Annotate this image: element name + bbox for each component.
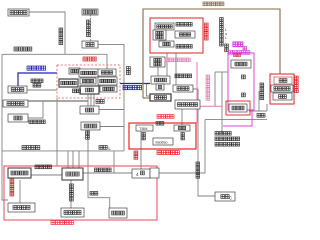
label: shijiu-meiren <box>22 146 26 150</box>
box: wuyong-daopao <box>59 79 78 87</box>
label: nv char <box>242 75 246 79</box>
wire: brown big loop kaifangxing <box>143 9 280 98</box>
svg-text::: : <box>225 40 226 44</box>
box: small tang <box>156 84 164 90</box>
label: fuxi vertical <box>127 67 131 71</box>
box: chenyiyan <box>151 76 170 84</box>
label: cunv <box>257 114 261 118</box>
box: sheiwen-gairen <box>150 57 165 67</box>
label: zubao-errenzu magenta <box>229 51 233 55</box>
wire: daidai to vertical <box>99 109 124 111</box>
wire: sandama to right <box>249 110 267 112</box>
label: red vertical right of top box <box>204 23 208 27</box>
box: woaiwoma <box>8 203 35 212</box>
wire: brown to lierbo <box>143 97 150 99</box>
label: pink tingqi vertical <box>206 75 210 79</box>
svg-text:BaoBao: BaoBao <box>156 141 168 145</box>
label: xingdi-jinjiandui red bottom <box>51 221 55 225</box>
label: kaifangxing-jieju brown top <box>203 2 207 6</box>
label: guanli-zhiai vertical <box>260 83 264 87</box>
label: tongshi left vertical <box>142 133 145 136</box>
wire: blue tiqin right <box>120 83 150 85</box>
wire: chenwang-daidai 1 <box>87 94 89 106</box>
wire: up into right container <box>266 104 268 111</box>
label: pink naxiaqu <box>157 115 161 119</box>
box: TBM <box>136 125 153 131</box>
box: ruiwangzi <box>81 122 100 130</box>
container: red dashed meihuadao box <box>57 65 120 98</box>
wire: ruixuetang to dashed box <box>27 89 57 91</box>
label: textblock line3 <box>215 143 219 147</box>
box: zuanshi <box>159 41 174 47</box>
label: small red under magenta name <box>234 54 237 57</box>
wire: box A to shendiao line <box>29 12 65 54</box>
label: guanxi-louti vertical red <box>10 179 14 183</box>
box: sandama <box>229 104 247 112</box>
box: small attach box <box>150 168 159 178</box>
svg-text:4: 4 <box>136 172 139 177</box>
box: lierbo <box>150 94 171 101</box>
box: danxiangsi 1 <box>98 69 116 76</box>
label: qiye-hezuo <box>175 74 179 78</box>
wire: down to qiujiaoyi 3 <box>78 151 80 168</box>
box: chenwang <box>80 86 99 94</box>
label: tiqin-zhibo blue left <box>27 66 31 70</box>
box: dinghe <box>69 68 80 74</box>
box: mudajie <box>231 60 251 68</box>
box: dierti <box>173 85 193 92</box>
box: zhangjiaxiao <box>175 31 195 38</box>
container: top red box <box>150 18 203 53</box>
wire: shendiao horizontal line <box>2 53 107 55</box>
container: bottom red box <box>4 166 157 220</box>
box: danxiangsi 3 <box>100 86 117 92</box>
wire: down to tianmingC <box>198 109 215 196</box>
label: vertical column text 1 <box>220 18 224 22</box>
label: tilian vertical <box>87 20 91 24</box>
label: qingmei-furen <box>176 45 180 49</box>
label: dao char <box>242 93 246 97</box>
container: magenta erren-zu box <box>228 53 254 110</box>
label: chuqu-wuwu <box>176 23 180 27</box>
wire: qiujiaoyi to 4hao <box>83 172 132 174</box>
box: yizi-yu-jiaohuang <box>175 100 200 109</box>
label: shihua-jiaohuan vertical <box>59 28 63 32</box>
wire: ruiwangzi to vertical <box>100 126 124 128</box>
wire: left edge down to wo-ai-wo-ma <box>2 54 8 200</box>
wire: vertical 222 to textblock <box>221 72 223 133</box>
label: textblock line1 <box>215 132 219 136</box>
box: daidai <box>80 106 99 114</box>
wire: small link to li-er-bo <box>146 84 150 96</box>
label: tongshi right vertical <box>181 133 184 136</box>
wire: cunv horizontal <box>205 119 267 121</box>
wire: qiujiaoyi down to chaoshan <box>70 180 72 208</box>
label: fouren near bottom wire <box>90 192 94 196</box>
container: red around sandama <box>226 101 250 115</box>
box: BaoBao <box>153 138 173 145</box>
wire: cunv down to small box <box>159 120 205 173</box>
box: diangun <box>174 125 190 131</box>
wire: chenwang-daidai 2 <box>90 94 92 106</box>
label: pink fuzhu line1 <box>165 58 169 62</box>
label: meijingtao red <box>157 151 161 155</box>
box: 4hao <box>132 169 150 178</box>
wire: chongtian down to woaiwoma <box>19 180 21 203</box>
box: dache <box>271 85 293 92</box>
wire: red box to dierti <box>175 53 177 85</box>
label: relian vertical <box>134 151 138 155</box>
label: chouren vertical <box>86 131 90 135</box>
wire: red box to chenyiyan <box>166 53 168 76</box>
label: dengji-zhiai <box>95 168 99 172</box>
wire: to erren-zu box <box>215 71 228 73</box>
container: red tongshi box <box>129 123 196 149</box>
label: xuexia <box>73 89 77 93</box>
box: chumen-dongtian <box>79 69 98 77</box>
wire: down to 4hao line <box>113 151 115 173</box>
wire: pink annotation line <box>196 62 198 123</box>
label: shihua-quanji <box>35 165 39 169</box>
box: dabai <box>82 41 98 48</box>
label: textblock line2 <box>215 137 219 141</box>
wire: shijiu-meiren horizontal <box>2 150 124 152</box>
box: yizi <box>273 93 292 100</box>
container: right red aiqing box <box>270 74 294 104</box>
wire: magenta down-left <box>223 110 252 126</box>
wire: chongtian to qiujiaoyi <box>30 174 62 176</box>
wire: dashed-box down to red box <box>56 98 58 166</box>
box: chaoshan-guoqi <box>61 208 84 217</box>
wire: pink horizontal <box>197 105 222 107</box>
label: guanli-miren vertical <box>70 184 74 188</box>
label: tongshi top <box>156 122 160 126</box>
box: chongtian-tufang <box>8 168 31 178</box>
box: wang-jia top left <box>8 9 29 16</box>
svg-text:TBM: TBM <box>139 126 147 131</box>
label: meihuadao red <box>83 57 87 61</box>
box: tianmingC <box>215 192 235 201</box>
svg-text:C: C <box>229 196 232 201</box>
label: fujiao <box>96 100 100 104</box>
box: huxindan <box>82 9 98 15</box>
wire: dabai right down long <box>98 44 124 150</box>
box: ruixuetang <box>8 86 27 93</box>
wire: dierti right into yizi box <box>193 89 198 100</box>
wire: yizi-jiaohuang to diangun <box>181 109 183 125</box>
wire: sheiwen box down <box>157 67 159 76</box>
label: zhenjia <box>99 146 103 150</box>
label: shendiao-xiashi <box>14 47 18 51</box>
wire: chenwang-daidai 3 <box>93 94 95 106</box>
wire: rengting to gray line <box>28 101 43 118</box>
wire: huxindan to dabai dashed <box>90 15 92 41</box>
box: danxiangsi 2 <box>80 78 96 84</box>
wire: ruiwangzi down to chenxiaojie <box>88 131 110 209</box>
svg-text:L: L <box>108 146 111 151</box>
wire: vertical 215 <box>214 72 216 106</box>
wire: blue tiqin left <box>18 73 57 86</box>
box: aiqing <box>274 77 292 84</box>
label: tiqin-zhibo blue right <box>123 86 127 90</box>
wire: TBM down to 4hao (re-lian) <box>140 131 142 169</box>
box: qiujiaoyi <box>62 168 83 180</box>
label: shichangshi line1 <box>31 79 35 83</box>
box: maixiang <box>98 77 117 85</box>
label: miji line2 <box>33 84 37 88</box>
box: chenyong-xiari <box>3 100 28 107</box>
label: shijiu-meijiao vertical <box>196 162 200 166</box>
label: magenta name big <box>233 42 238 47</box>
box: junggui <box>155 23 174 30</box>
box: fenshou-wuwu <box>153 30 166 40</box>
wire: down into danxiangsi1 <box>106 54 108 69</box>
wire: gray thick line <box>28 100 88 102</box>
wire: down to qiujiaoyi 1 <box>67 151 69 168</box>
wire: down to qiujiaoyi 2 <box>72 151 74 168</box>
box: chenxiaojie <box>109 208 127 218</box>
label: qiutan-baogao <box>29 120 33 124</box>
label: red vertical right edge <box>295 76 299 80</box>
wire: guanli vertical <box>258 91 260 111</box>
box: rengting <box>8 114 28 122</box>
